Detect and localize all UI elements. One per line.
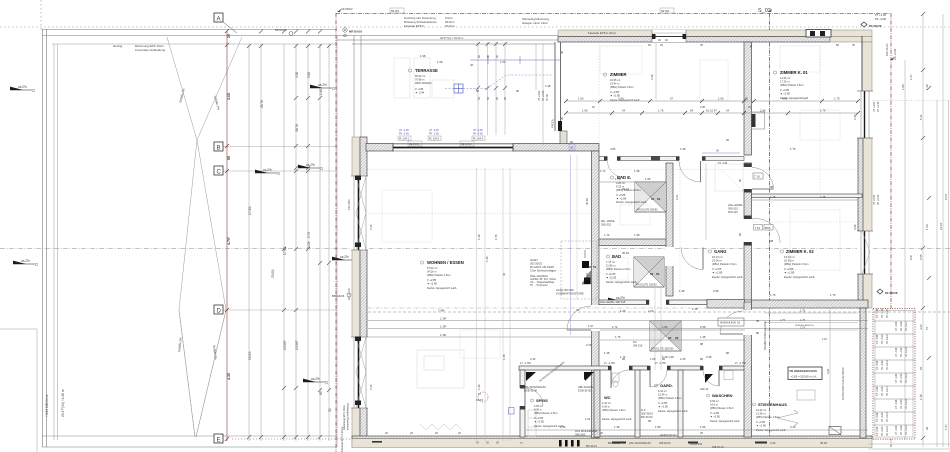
red section line vertical at building west (335, 13, 337, 452)
bottom right dim lines (868, 444, 950, 449)
waschen fixture (724, 371, 815, 401)
row marker C (214, 166, 223, 176)
svg-text:PK GR10: PK GR10 (905, 398, 908, 409)
svg-text:∇ +2.85: ∇ +2.85 (709, 411, 720, 415)
dimension chain gang zk02 (752, 199, 858, 201)
svg-text:UT +2.60: UT +2.60 (538, 90, 541, 101)
svg-text:PK +2.60: PK +2.60 (542, 90, 545, 101)
svg-text:6.36 m: 6.36 m (602, 405, 610, 409)
svg-text:28.30: 28.30 (820, 441, 827, 445)
svg-text:PT -4.98: PT -4.98 (718, 162, 728, 165)
corridor bold blue dims (588, 265, 679, 340)
svg-text:WC: WC (604, 395, 611, 400)
svg-text:PK 06: PK 06 (546, 94, 549, 101)
extra ticks left cluster (247, 44, 331, 439)
top annotation block 2 (522, 17, 549, 25)
svg-text:27. -4.750: 27. -4.750 (655, 362, 666, 365)
svg-text:1.38¹: 1.38¹ (440, 317, 446, 321)
slope arrow top-left ca.2% (10, 85, 35, 92)
shower bad e (635, 182, 666, 212)
svg-text:1.38: 1.38 (925, 84, 929, 90)
svg-text:Fassade EPS F: Fassade EPS F (404, 24, 424, 28)
roof bottom edge lines (42, 435, 337, 437)
svg-text:BE: BE (657, 198, 661, 201)
svg-text:PK GR-2: PK GR-2 (886, 334, 889, 344)
svg-text:30: 30 (745, 97, 749, 101)
bad divider wall (599, 239, 667, 246)
svg-text:27. -4.750: 27. -4.750 (604, 362, 615, 365)
svg-text:13.26 m: 13.26 m (756, 412, 765, 416)
dimension chain bottom rooms (526, 429, 868, 431)
svg-text:(FBS) Fliesen 1.5cm: (FBS) Fliesen 1.5cm (756, 415, 780, 419)
roof left edge lines (42, 29, 44, 447)
svg-text:13.587: 13.587 (295, 340, 299, 350)
svg-text:1.38: 1.38 (680, 147, 686, 151)
svg-text:98: 98 (770, 239, 774, 243)
svg-text:2.33: 2.33 (560, 425, 566, 429)
row line C (218, 170, 337, 172)
svg-text:MR DA/16: MR DA/16 (349, 30, 362, 34)
wohnen shaft dashed box (561, 241, 597, 299)
svg-text:2.26: 2.26 (369, 224, 373, 230)
svg-text:23.06 m: 23.06 m (712, 259, 722, 263)
svg-text:RE...WAML: RE...WAML (601, 219, 615, 223)
svg-text:ca.2%: ca.2% (263, 168, 272, 172)
svg-text:Decke: Gipsgestrich weiß: Decke: Gipsgestrich weiß (710, 419, 740, 423)
svg-text:HSAN: HSAN (530, 258, 538, 262)
svg-text:20.0cm: 20.0cm (445, 24, 455, 28)
black triangle wohnen left (585, 372, 594, 381)
svg-text:UT -4.80: UT -4.80 (895, 373, 898, 383)
svg-text:1.05: 1.05 (680, 357, 686, 361)
svg-text:PL 104-1: PL 104-1 (399, 138, 410, 141)
svg-text:∇ +2.85: ∇ +2.85 (783, 267, 794, 271)
svg-text:E: E (217, 438, 221, 444)
door arc wc (611, 370, 629, 388)
svg-text:∇ +2.85: ∇ +2.85 (605, 272, 616, 276)
red section line S_02 vertical (769, 13, 771, 445)
east window 1 (857, 91, 873, 138)
door arc waschen (703, 370, 719, 386)
svg-text:PK GR-1: PK GR-1 (886, 308, 889, 318)
svg-text:1.10: 1.10 (822, 337, 828, 341)
svg-text:16.93 m: 16.93 m (784, 259, 794, 263)
svg-text:∇ -2.84: ∇ -2.84 (414, 87, 424, 91)
door arc gard (650, 370, 667, 387)
svg-text:PK +2.40: PK +2.40 (877, 101, 880, 112)
svg-text:20.32: 20.32 (622, 187, 629, 191)
speis shelves (528, 410, 536, 436)
svg-text:90: 90 (738, 178, 742, 182)
svg-text:1.75: 1.75 (615, 335, 621, 339)
svg-text:PK -4.60: PK -4.60 (900, 399, 903, 409)
svg-text:1.86: 1.86 (645, 177, 651, 181)
door gap zk02 (743, 219, 753, 242)
svg-text:3.65: 3.65 (307, 72, 311, 78)
room label zimmer (603, 72, 639, 102)
svg-text:GARD.: GARD. (660, 383, 673, 388)
svg-text:Heizug: Heizug (113, 44, 123, 48)
row marker A (214, 13, 237, 33)
entry door gap (743, 310, 753, 335)
svg-text:7.17 m²: 7.17 m² (606, 260, 615, 264)
door gaps in corridor south wall (608, 365, 723, 371)
boundary dotted line top (0, 26, 950, 28)
svg-text:BSK: BSK (765, 226, 771, 230)
svg-text:PK +2.40: PK +2.40 (877, 194, 880, 205)
svg-text:81.10.97: 81.10.97 (706, 109, 717, 113)
svg-text:SPIEGEL ABSTELL: SPIEGEL ABSTELL (795, 324, 815, 327)
svg-text:1.38¹: 1.38¹ (440, 325, 446, 329)
door arc bad (681, 248, 703, 270)
svg-text:2.01: 2.01 (675, 194, 679, 200)
top right blue labels (875, 13, 887, 21)
door gap bad (665, 247, 674, 266)
svg-text:1.75: 1.75 (770, 195, 776, 199)
small blue dims scattered (437, 60, 827, 445)
rf dk08 diamond top right (861, 22, 882, 28)
svg-text:4.86: 4.86 (610, 147, 616, 151)
outside stair enclosure (873, 309, 915, 440)
svg-text:22.95 m²: 22.95 m² (610, 78, 620, 82)
svg-text:PK +0.80: PK +0.80 (875, 17, 887, 21)
stair treads (873, 321, 915, 425)
pl boxed labels top zimmer (390, 8, 674, 146)
slope arrow right cluster 1 (310, 83, 335, 90)
svg-text:WOHNUNG 01: WOHNUNG 01 (720, 321, 741, 325)
svg-text:21.97: 21.97 (945, 193, 948, 200)
corridor vertical chain stubs (655, 288, 661, 370)
spine wall vertical (592, 151, 600, 438)
svg-text:UK +2.60: UK +2.60 (893, 48, 897, 60)
red arrow marker top right S02 end (768, 9, 772, 12)
svg-text:87: 87 (919, 366, 923, 370)
stiegenhaus east wall lower (860, 308, 866, 438)
bottom wall blue texts (586, 441, 671, 448)
svg-text:35: 35 (749, 44, 753, 48)
stair direction arrow (777, 410, 798, 426)
svg-text:1.79: 1.79 (820, 109, 826, 113)
svg-text:Decke: Gipsgestrich weiß: Decke: Gipsgestrich weiß (784, 275, 815, 279)
svg-text:30.92: 30.92 (585, 273, 589, 280)
west wall insulation beige (352, 137, 360, 447)
wohnung 01 boxed label (718, 318, 744, 326)
small blue box symbol (509, 408, 515, 415)
svg-text:D.Z: D.Z (641, 408, 646, 412)
svg-text:1.97: 1.97 (588, 324, 594, 328)
svg-text:SCHMUTZSCHLEUSE: SCHMUTZSCHLEUSE (763, 321, 767, 350)
svg-text:HSL WOHNRAUM: HSL WOHNRAUM (629, 441, 651, 445)
svg-text:PK -2.65: PK -2.65 (473, 133, 483, 136)
svg-text:∇ +2.85: ∇ +2.85 (533, 416, 544, 420)
svg-text:1.86: 1.86 (700, 425, 706, 429)
svg-text:Fassade EPS F 20cm: Fassade EPS F 20cm (340, 427, 344, 452)
texts top-left roof (113, 44, 166, 52)
svg-text:98: 98 (700, 342, 704, 346)
east wall insulation beige (862, 42, 872, 308)
svg-text:2.06: 2.06 (648, 309, 654, 313)
corridor north wall thin part (599, 300, 707, 305)
door arc zk01 (752, 168, 774, 190)
south wall window ticks (372, 440, 767, 447)
slope arrow center 2 ca.2% (332, 255, 354, 260)
svg-text:303 50/32: 303 50/32 (530, 262, 542, 266)
svg-text:98: 98 (668, 336, 672, 340)
svg-text:308 30/15: 308 30/15 (641, 412, 653, 416)
north wall insulation beige (558, 30, 872, 37)
svg-text:Fassade EPS F 20cm: Fassade EPS F 20cm (588, 31, 617, 35)
svg-text:1.38: 1.38 (634, 233, 640, 237)
svg-text:PK GR-7: PK GR-7 (905, 321, 908, 331)
right margin rotated texts (873, 74, 948, 430)
svg-text:HSL WOHNRAUM.: HSL WOHNRAUM. (524, 385, 547, 389)
svg-text:ca.2%: ca.2% (311, 377, 320, 381)
svg-text:Decke: Gipsgestrich weiß: Decke: Gipsgestrich weiß (658, 409, 688, 413)
svg-text:46: 46 (470, 63, 474, 67)
zimmer divider dim texts (560, 44, 753, 120)
blue note corridor (641, 408, 653, 419)
svg-text:45: 45 (560, 50, 564, 54)
svg-text:Dämmung EPS 10cm: Dämmung EPS 10cm (342, 405, 346, 430)
svg-text:1.98: 1.98 (420, 54, 426, 58)
svg-text:Decke: Gipsgestrich weiß: Decke: Gipsgestrich weiß (610, 98, 640, 102)
corridor south wall (519, 366, 752, 370)
gang partition line (705, 163, 707, 240)
svg-text:28.76: 28.76 (295, 124, 299, 132)
svg-text:30.92: 30.92 (622, 251, 629, 255)
slope arrow right cluster 3 (608, 296, 630, 301)
svg-text:AASN 303: AASN 303 (690, 442, 703, 446)
svg-text:28.76: 28.76 (260, 100, 264, 108)
svg-text:3.65: 3.65 (227, 93, 231, 100)
svg-text:1.38: 1.38 (485, 256, 489, 262)
black triangle hsl speis (524, 372, 547, 393)
svg-text:1.38: 1.38 (477, 234, 481, 240)
svg-text:▼ -2.84: ▼ -2.84 (415, 91, 425, 95)
svg-text:BE: BE (656, 273, 660, 276)
svg-text:UT -4.80: UT -4.80 (876, 386, 879, 396)
svg-text:anlegen mind. 12cm: anlegen mind. 12cm (522, 21, 549, 25)
dim 90 partition (702, 149, 740, 166)
svg-text:52: 52 (593, 265, 597, 269)
faint furniture terrace (394, 58, 454, 98)
svg-text:2.06: 2.06 (770, 441, 776, 445)
svg-text:WASCHEN: WASCHEN (712, 393, 733, 398)
svg-text:21.97: 21.97 (939, 222, 943, 230)
svg-text:PK -4.60: PK -4.60 (881, 386, 884, 396)
svg-text:PK -4.60: PK -4.60 (881, 308, 884, 318)
faint dotted grid lines (368, 42, 862, 295)
svg-text:+2.85 = 525.80 m ü.A.: +2.85 = 525.80 m ü.A. (791, 375, 818, 379)
svg-text:UT -4.80: UT -4.80 (876, 334, 879, 344)
svg-text:1.86: 1.86 (655, 425, 661, 429)
svg-text:(FBS) Fliesen 1.5cm: (FBS) Fliesen 1.5cm (534, 411, 558, 415)
svg-text:D: D (217, 309, 222, 315)
svg-text:RF DK/08: RF DK/08 (885, 291, 898, 295)
svg-text:S_02: S_02 (758, 8, 771, 14)
niche zk01 wall (752, 112, 765, 129)
svg-text:1.79: 1.79 (834, 97, 840, 101)
svg-text:T 10: T 10 (754, 175, 760, 179)
row line B (218, 146, 337, 148)
svg-text:1.90: 1.90 (578, 97, 584, 101)
dim lines wohnen bottom (368, 312, 950, 337)
svg-text:1.80: 1.80 (901, 84, 905, 90)
svg-text:3.98: 3.98 (853, 224, 857, 230)
black triangle hsl wc (578, 372, 594, 393)
extra bottom blue texts (690, 442, 724, 449)
svg-text:ZIMMER K. 02: ZIMMER K. 02 (786, 249, 814, 254)
svg-text:PK GR-6: PK GR-6 (886, 426, 889, 436)
svg-text:PT +1.00: PT +1.00 (875, 13, 886, 17)
section dash-dot line row mid (0, 248, 950, 250)
svg-text:PK -2.65: PK -2.65 (429, 133, 439, 136)
svg-text:98: 98 (648, 419, 652, 423)
slope arrow right cluster 2 (298, 163, 323, 170)
svg-text:86: 86 (662, 357, 666, 361)
svg-text:2.34 m²: 2.34 m² (602, 401, 611, 405)
pl boxed labels terrace wall (398, 129, 485, 141)
svg-text:(FBH) Parkett 1.5cm: (FBH) Parkett 1.5cm (784, 262, 809, 266)
svg-text:HSL+WAML 308 S15: HSL+WAML 308 S15 (600, 300, 626, 304)
schacht box (829, 427, 841, 435)
svg-text:15.04 m²: 15.04 m² (784, 255, 795, 259)
roof valley diamond pattern (167, 37, 242, 437)
svg-text:308 S15: 308 S15 (601, 223, 612, 227)
svg-text:BR DA/06: BR DA/06 (275, 28, 287, 32)
svg-text:34: 34 (502, 272, 506, 276)
vertical dim chains wohnen (477, 168, 511, 441)
bottom small dims (385, 431, 703, 445)
svg-text:ca.2%: ca.2% (318, 83, 327, 87)
svg-text:Decke: Gipsgestrich weiß: Decke: Gipsgestrich weiß (616, 200, 647, 204)
svg-text:34: 34 (576, 308, 580, 312)
svg-text:∇ +2.85: ∇ +2.85 (711, 267, 722, 271)
svg-text:2.26: 2.26 (369, 384, 373, 390)
wohnen north wall (366, 144, 599, 152)
svg-text:1.76: 1.76 (658, 109, 664, 113)
svg-text:34: 34 (726, 109, 730, 113)
svg-text:14.26 m²: 14.26 m² (780, 76, 790, 80)
boundary dotted vertical left (40, 0, 42, 30)
svg-text:UT +2.60: UT +2.60 (873, 101, 876, 112)
svg-text:85: 85 (319, 391, 323, 395)
rotated blue dims on walls (347, 114, 857, 390)
svg-text:Decke: Gipsgestrich weiß: Decke: Gipsgestrich weiß (712, 275, 743, 279)
svg-text:A: A (217, 17, 221, 23)
stiegenhaus dim rows (765, 308, 858, 437)
svg-text:(FBH) Parkett 1.5cm: (FBH) Parkett 1.5cm (780, 83, 804, 87)
svg-text:1.38¹: 1.38¹ (440, 333, 446, 337)
svg-text:1.01: 1.01 (585, 417, 591, 421)
svg-text:PK -4.60: PK -4.60 (900, 321, 903, 331)
svg-text:1.98: 1.98 (545, 84, 551, 88)
west wall structure (360, 137, 367, 447)
svg-text:1.38: 1.38 (919, 394, 923, 400)
svg-text:RF DK/08: RF DK/08 (869, 24, 882, 28)
svg-text:2.33: 2.33 (530, 357, 536, 361)
svg-text:STIEGENHAUS: STIEGENHAUS (758, 402, 787, 407)
svg-text:34.26 m: 34.26 m (427, 270, 436, 274)
svg-text:85: 85 (227, 156, 231, 160)
svg-text:308 S15: 308 S15 (728, 207, 739, 211)
svg-text:308 30-10: 308 30-10 (712, 445, 724, 449)
svg-text:C: C (217, 170, 222, 176)
terrace zimmer divider wall (551, 42, 568, 144)
svg-text:57: 57 (925, 326, 929, 330)
svg-text:PK GR11: PK GR11 (905, 424, 908, 435)
gard waschen divider (678, 370, 683, 437)
left wall rotated labels (340, 403, 350, 452)
svg-text:ARGOLITE 190/90: ARGOLITE 190/90 (636, 284, 658, 287)
svg-text:1.05: 1.05 (650, 357, 656, 361)
svg-text:17.80¹: 17.80¹ (283, 246, 287, 255)
svg-text:30.92: 30.92 (585, 198, 589, 205)
room label speis (531, 398, 564, 428)
MR DA16 roof drain symbol top (343, 28, 363, 37)
svg-text:1.38: 1.38 (614, 425, 620, 429)
door arc corridor opening (567, 306, 591, 330)
svg-text:308 30.00: 308 30.00 (659, 441, 671, 445)
svg-text:1.75: 1.75 (770, 293, 776, 297)
svg-text:3.5er Stereckverlagen: 3.5er Stereckverlagen (530, 269, 557, 273)
svg-text:GANG: GANG (714, 249, 727, 254)
svg-text:2.26: 2.26 (586, 343, 592, 347)
north wall structure (558, 37, 830, 43)
svg-text:PROOL: PROOL (551, 118, 555, 128)
svg-text:20: 20 (227, 34, 231, 38)
svg-text:86: 86 (756, 331, 760, 335)
room label wc (602, 395, 632, 421)
svg-text:1.74: 1.74 (600, 169, 606, 173)
west window 2 (351, 337, 368, 409)
room label gard (655, 383, 688, 413)
svg-text:ARGOLITE 190/90: ARGOLITE 190/90 (637, 209, 659, 212)
right outside dim columns (872, 14, 950, 447)
svg-text:PK -4.60: PK -4.60 (900, 373, 903, 383)
red dim texts rotated (227, 34, 231, 380)
waschen stiegenhaus wall (744, 302, 752, 437)
svg-text:▼ +2.85: ▼ +2.85 (756, 424, 766, 428)
svg-text:PL 104-2: PL 104-2 (429, 138, 440, 141)
svg-text:AASN 303 50F: AASN 303 50F (556, 288, 574, 292)
left small corner box bottom (0, 328, 37, 330)
svg-text:TK ... Polystyrol: TK ... Polystyrol (530, 284, 548, 287)
svg-text:86: 86 (726, 351, 730, 355)
svg-text:PK GR-4: PK GR-4 (886, 386, 889, 396)
shower bad (634, 257, 664, 287)
svg-text:70.98 m: 70.98 m (415, 78, 424, 82)
svg-text:1.75: 1.75 (800, 318, 806, 322)
door arc gang top (679, 161, 701, 182)
svg-text:RE 104-1: RE 104-1 (409, 143, 420, 146)
svg-text:ca.2%: ca.2% (340, 255, 349, 259)
red arrow symbol AK DK02 top left corner (337, 7, 353, 12)
blue note bad left (601, 219, 615, 227)
svg-text:2.48: 2.48 (853, 114, 857, 120)
svg-text:UT -4.80: UT -4.80 (876, 360, 879, 370)
terrace dim verticals (478, 42, 543, 145)
svg-text:1.38: 1.38 (700, 335, 706, 339)
svg-text:UT -4.80: UT -4.80 (895, 399, 898, 409)
svg-text:1.47¹: 1.47¹ (945, 424, 948, 430)
svg-text:UT -4.80: UT -4.80 (895, 321, 898, 331)
svg-text:BAD: BAD (612, 254, 621, 259)
svg-text:2.66 m²: 2.66 m² (534, 404, 543, 408)
svg-text:1.05: 1.05 (620, 309, 626, 313)
corridor dash-dot axis (368, 307, 868, 309)
svg-text:45: 45 (570, 146, 574, 150)
